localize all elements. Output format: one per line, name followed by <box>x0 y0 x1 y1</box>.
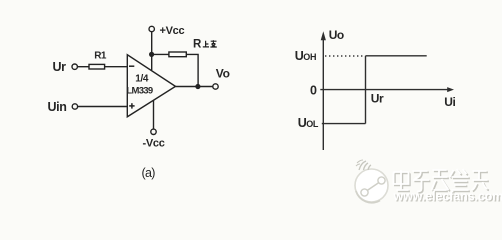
svg-text:Uin: Uin <box>48 100 67 114</box>
svg-text:Vo: Vo <box>216 67 230 81</box>
svg-text:LM339: LM339 <box>126 86 152 97</box>
svg-text:-Vcc: -Vcc <box>143 138 165 150</box>
svg-text:1/4: 1/4 <box>135 74 149 85</box>
svg-text:Ui: Ui <box>444 95 455 109</box>
svg-text:OH: OH <box>303 52 316 62</box>
svg-text:+Vcc: +Vcc <box>160 25 185 37</box>
svg-text:www.elecfans.com: www.elecfans.com <box>393 189 502 203</box>
svg-text:R1: R1 <box>94 50 107 61</box>
svg-text:Ur: Ur <box>53 60 67 74</box>
svg-text:Uo: Uo <box>329 28 344 42</box>
svg-text:Ur: Ur <box>371 92 384 106</box>
svg-text:R: R <box>193 39 202 51</box>
svg-text:0: 0 <box>310 84 317 98</box>
svg-text:OL: OL <box>306 119 319 129</box>
svg-text:(a): (a) <box>142 166 156 180</box>
